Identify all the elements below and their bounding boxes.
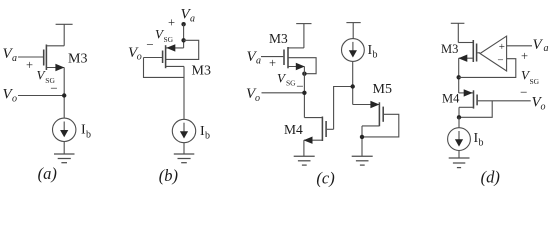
transistor M4 drain lead (top) — [304, 117, 322, 119]
ground — [174, 153, 195, 155]
wire drain down to current source — [183, 66, 185, 119]
svg-text:−: − — [146, 37, 153, 52]
svg-text:M5: M5 — [373, 82, 392, 97]
transistor M4 source lead with arrow — [304, 139, 322, 141]
svg-text:o: o — [137, 51, 142, 62]
wire Va down to source of M3 — [183, 24, 185, 48]
current source Ib arrow — [458, 131, 460, 140]
ground left — [294, 155, 315, 157]
svg-text:SG: SG — [286, 79, 296, 88]
transistor M3 gate lead to amplifier — [477, 52, 480, 54]
terminal dot below Va — [181, 22, 185, 26]
transistor M3 channel bar — [287, 47, 289, 68]
wire current source down to M5 source — [352, 61, 354, 104]
svg-text:−: − — [520, 84, 527, 99]
svg-text:b: b — [373, 49, 378, 60]
supply rail bar right — [346, 22, 360, 24]
wire Vo to node — [262, 92, 305, 94]
transistor M3 source arrow — [55, 64, 64, 71]
transistor M3 drain lead (top) — [458, 42, 473, 44]
svg-text:o: o — [12, 94, 17, 105]
transistor M4 gate lead — [327, 128, 334, 130]
wire amplifier input from Va — [507, 45, 532, 47]
svg-text:a: a — [256, 55, 261, 66]
junction feedback node — [457, 75, 461, 79]
op-amp error amplifier triangle — [480, 36, 507, 71]
transistor M5 channel bar — [378, 102, 380, 126]
current source Ib arrow — [183, 123, 185, 132]
svg-text:o: o — [541, 102, 546, 113]
wire Vo to gate of M3 — [144, 57, 163, 59]
transistor M3 channel bar — [165, 45, 167, 68]
wire supply to current source — [352, 23, 354, 39]
transistor M3 body lead loop — [288, 58, 316, 74]
wire Va to gate of M3 — [18, 56, 43, 58]
wire Vo to source node — [18, 95, 64, 97]
svg-text:M4: M4 — [442, 92, 460, 106]
svg-text:o: o — [255, 93, 260, 104]
transistor M5 gate bar — [382, 107, 384, 122]
current source Ib circle — [52, 118, 75, 141]
transistor M4 gate bar — [325, 121, 327, 137]
wire feedback to amplifier minus input — [459, 59, 516, 78]
wire Va to gate of M3 — [261, 56, 283, 58]
transistor M5 drain lead (bottom) — [362, 125, 379, 127]
transistor M3 drain lead (top) — [288, 47, 304, 49]
svg-text:(d): (d) — [481, 168, 500, 187]
transistor M4 channel bar — [321, 117, 323, 142]
junction Vo node — [302, 91, 306, 95]
wire current source to ground — [183, 143, 185, 154]
svg-text:b: b — [479, 138, 484, 149]
wire Vo loop to drain node — [144, 58, 185, 78]
ground — [54, 153, 75, 155]
svg-text:−: − — [497, 54, 503, 66]
junction Ib / M4 gate / M5 — [351, 84, 355, 88]
wire supply down — [457, 23, 459, 42]
current source Ib arrow — [352, 42, 354, 51]
svg-text:−: − — [50, 81, 57, 96]
svg-text:M3: M3 — [192, 63, 211, 78]
wire body tie loop — [166, 40, 199, 59]
svg-text:(b): (b) — [159, 166, 178, 185]
transistor M4 channel bar — [473, 90, 475, 108]
wire M4 gate loop — [459, 101, 492, 118]
current source Ib circle — [172, 119, 195, 142]
svg-text:+: + — [168, 16, 175, 30]
transistor M5 source lead with arrow — [353, 104, 379, 106]
junction body tie — [181, 38, 185, 42]
svg-text:b: b — [205, 130, 210, 141]
transistor M5 gate lead and loop — [362, 114, 399, 137]
transistor M3 source lead with arrow — [459, 57, 473, 59]
transistor M4 gate lead to Vo — [478, 100, 531, 102]
current source Ib arrow — [63, 122, 65, 131]
wire M5 drain to ground — [361, 126, 363, 156]
wire source down to Vo and M4 — [303, 67, 305, 118]
transistor M4 drain lead with arrow (top) — [459, 92, 473, 94]
ground — [449, 157, 470, 159]
junction M5 gate loop — [360, 135, 364, 139]
wire M4 source down — [458, 107, 460, 117]
transistor M3 source lead with arrow — [166, 47, 184, 49]
svg-text:M3: M3 — [441, 42, 458, 56]
svg-text:+: + — [521, 49, 528, 63]
svg-text:+: + — [26, 58, 33, 72]
svg-text:−: − — [296, 79, 303, 94]
junction body tie — [302, 72, 306, 76]
transistor M3 gate bar — [162, 51, 164, 64]
svg-text:b: b — [86, 129, 91, 140]
transistor M3 drain lead (top) — [46, 45, 64, 47]
transistor M3 channel bar — [45, 45, 47, 71]
supply rail bar left — [296, 23, 311, 25]
supply rail bar — [56, 23, 73, 25]
current source Ib circle — [448, 128, 471, 151]
transistor M3 source lead with arrow — [288, 66, 304, 68]
supply rail bar — [451, 22, 465, 24]
svg-text:a: a — [12, 53, 17, 64]
svg-text:(a): (a) — [38, 164, 57, 183]
wire source down to current source — [63, 68, 65, 119]
svg-text:M3: M3 — [269, 31, 288, 46]
transistor M3 gate bar — [476, 44, 478, 62]
wire current source to ground — [458, 151, 460, 159]
wire M3 source down to M4 drain — [458, 58, 460, 93]
transistor M3 gate bar — [43, 50, 45, 66]
transistor M3 channel bar — [472, 40, 474, 62]
wire M4 gate up to Ib node — [334, 87, 353, 130]
junction source node — [457, 115, 461, 119]
wire drain up to supply — [63, 24, 65, 46]
wire supply down to drain of M3 — [303, 24, 305, 48]
junction Vo node — [62, 93, 66, 97]
transistor M3 source lead (bottom) — [46, 67, 64, 69]
wire M4 source to ground — [303, 140, 305, 156]
wire down to current source — [458, 117, 460, 127]
svg-text:a: a — [190, 13, 195, 24]
svg-text:a: a — [544, 43, 549, 54]
current source Ib circle — [342, 39, 365, 62]
svg-text:+: + — [499, 41, 505, 53]
svg-text:M4: M4 — [284, 122, 303, 137]
svg-text:M3: M3 — [68, 52, 87, 67]
transistor M4 gate bar — [476, 95, 478, 106]
svg-text:+: + — [269, 56, 276, 70]
svg-text:SG: SG — [530, 77, 540, 86]
ground right — [352, 155, 373, 157]
svg-text:(c): (c) — [316, 168, 334, 187]
transistor M4 source lead (bottom) — [459, 106, 473, 108]
svg-text:SG: SG — [164, 35, 174, 44]
transistor M3 drain lead (bottom) — [166, 65, 184, 67]
wire current source to ground — [63, 142, 65, 155]
transistor M3 gate bar — [283, 50, 285, 66]
